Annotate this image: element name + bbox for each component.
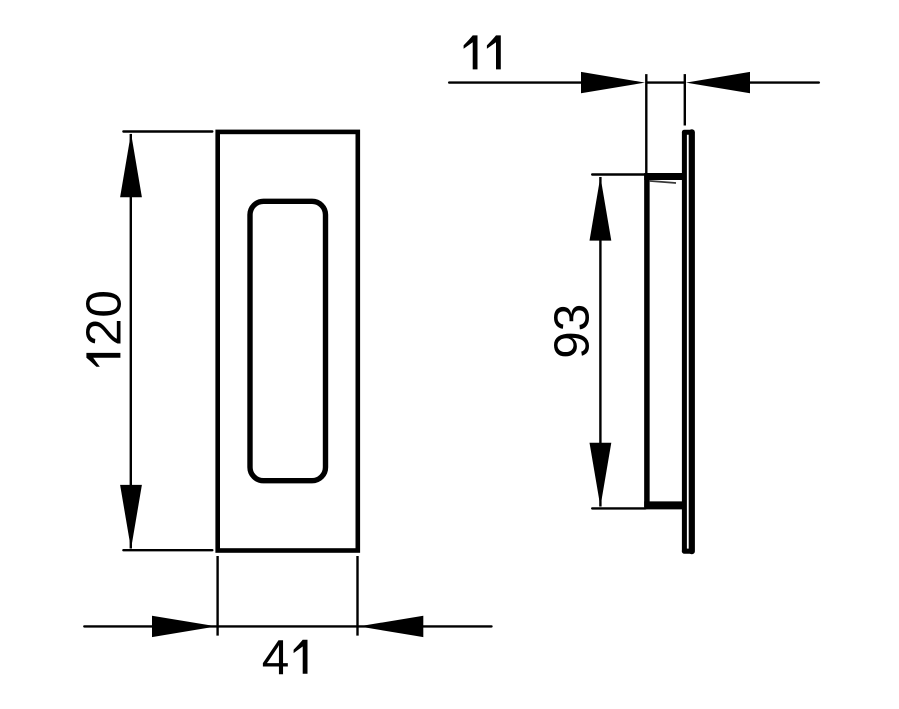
dim 11: left arrowhead [581,72,645,93]
side view: recessed cup bottom wall [644,501,684,509]
front view: handle outer plate rectangle [218,132,358,551]
dim 11: right extension line [684,74,686,125]
side view: recessed cup back wall [644,175,650,508]
dim 11: right tail line [750,81,819,83]
side view: cup inner draft line top [649,181,676,183]
dim 41: label "1" glyph [294,640,308,674]
side view: face plate bottom end cap [684,549,691,554]
svg-text:93: 93 [544,304,599,359]
dim 120: bottom arrowhead [120,485,142,549]
dim 93: label "93" rotated [544,304,599,359]
dim 93: top arrowhead [590,177,612,241]
dim 120: top arrowhead [120,133,142,197]
dim 41: left extension line [216,556,218,636]
svg-text:0: 0 [76,290,131,318]
dim 93: bottom extension line [592,507,645,509]
dim 41: left arrowhead [152,616,217,637]
side view: face plate top end cap [684,130,691,135]
dim 41: dimension line [84,625,491,627]
dim 41: right arrowhead [359,616,424,637]
dim 120: dimension line [130,134,132,549]
side view: face plate back line [682,133,687,552]
dim 120: top extension line [123,130,212,132]
dim 11: label first "1" glyph [464,35,478,69]
dim 120: bottom extension line [123,549,212,551]
dim 93: top extension line [592,173,648,175]
dim 11: label second "1" glyph [487,35,501,69]
side view: recessed cup top wall [644,173,684,180]
dim 11: left tail line [449,81,581,83]
svg-text:4: 4 [262,630,290,685]
svg-text:2: 2 [76,318,131,346]
dim 11: left extension line [645,74,647,176]
side view: face plate front line [689,132,695,551]
dim 120: label "120" rotated [76,290,131,367]
dim 41: right extension line [356,556,358,636]
front view: recessed grip rounded rectangle [250,201,326,480]
dim 93: bottom arrowhead [590,443,612,507]
dim 93: dimension line [599,177,601,507]
dim 11: line between extension lines [646,81,685,83]
dim 11: right arrowhead [686,72,750,93]
